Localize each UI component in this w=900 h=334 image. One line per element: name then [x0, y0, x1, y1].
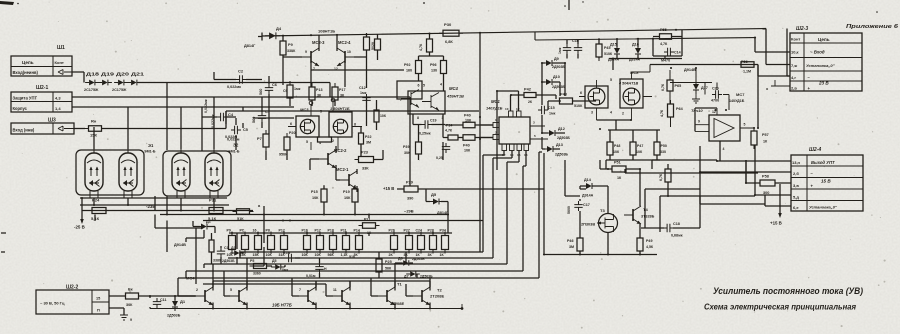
svg-text:5: 5	[423, 84, 425, 88]
svg-text:Т1: Т1	[397, 282, 402, 287]
op-amp МС7 outline	[709, 115, 740, 141]
svg-text:5: 5	[744, 123, 746, 127]
svg-text:9: 9	[305, 50, 307, 54]
svg-text:С11: С11	[160, 298, 166, 302]
wire collector/emitter at x=239	[246, 281, 248, 309]
svg-text:6: 6	[580, 91, 582, 95]
svg-text:10К: 10К	[266, 253, 273, 257]
ground symbol Ш2-3	[766, 80, 790, 91]
svg-text:11: 11	[333, 288, 337, 292]
svg-text:Д17: Д17	[701, 86, 708, 90]
svg-text:4,3: 4,3	[55, 95, 61, 100]
svg-text:2,в: 2,в	[791, 86, 797, 91]
svg-text:1,1К: 1,1К	[341, 253, 349, 257]
svg-text:330К: 330К	[287, 49, 296, 53]
svg-text:Р40: Р40	[464, 114, 471, 118]
svg-text:0,022мк: 0,022мк	[227, 85, 241, 89]
svg-text:459НТ1В: 459НТ1В	[446, 94, 464, 99]
svg-text:Н: Н	[324, 267, 327, 271]
resistor Р32 51К	[233, 209, 254, 221]
resistor С24 1К (row)	[416, 229, 425, 258]
resistor Р58 300	[756, 175, 779, 196]
svg-text:Д1: Д1	[180, 299, 186, 304]
svg-text:Р25: Р25	[385, 260, 392, 264]
terminal dot bottom right	[461, 304, 464, 310]
svg-text:Р55: Р55	[660, 28, 667, 32]
svg-text:Д814Г: Д814Г	[244, 44, 256, 48]
resistor Р49 4,5К	[637, 234, 654, 255]
svg-text:Р16: Р16	[302, 229, 308, 233]
svg-text:Р20: Р20	[289, 131, 295, 135]
svg-text:7,ж: 7,ж	[791, 63, 797, 68]
svg-text:1мк: 1мк	[294, 87, 301, 91]
capacitor С22 0,25мк	[436, 143, 450, 160]
svg-text:Р39: Р39	[403, 145, 409, 149]
wire С4 leads	[202, 116, 236, 118]
svg-text:Д5: Д5	[431, 192, 437, 197]
resistor Р9 10К (row)	[227, 229, 236, 258]
svg-text:Т4: Т4	[643, 207, 648, 212]
wire bundle vertical x=523	[523, 151, 526, 272]
svg-text:108НТ1Б: 108НТ1Б	[318, 29, 335, 34]
resistor Р33 4,7К	[427, 35, 433, 56]
svg-text:0,25: 0,25	[436, 156, 443, 160]
transistor МС8.1	[588, 88, 605, 105]
svg-text:РС: РС	[240, 229, 245, 233]
op-amp МС7 pins	[695, 108, 754, 161]
tube Э1a	[85, 149, 103, 198]
resistor Р47 10К	[630, 138, 643, 159]
svg-text:6,8К: 6,8К	[445, 40, 453, 44]
svg-text:2Д503Б: 2Д503Б	[412, 257, 425, 261]
svg-text:Р17: Р17	[339, 88, 345, 92]
wire tube interbox links	[80, 97, 229, 215]
svg-text:Р50: Р50	[661, 144, 667, 148]
wire bus y=220.5	[203, 220, 483, 222]
resistor Р30 6,8К	[439, 22, 463, 44]
svg-text:Ш2-3: Ш2-3	[796, 26, 808, 32]
capacitor С2 0,022мк	[227, 75, 246, 89]
svg-text:Защита УПТ: Защита УПТ	[13, 95, 38, 100]
svg-text:Установка„0”: Установка„0”	[809, 205, 837, 210]
svg-text:5: 5	[610, 78, 612, 82]
svg-text:МС2-4: МС2-4	[338, 40, 351, 45]
resistor Р8 10К (row)	[266, 229, 275, 258]
wire Д15/Д16 block nets	[567, 30, 682, 70]
svg-text:10: 10	[505, 107, 509, 111]
svg-text:-23В: -23В	[146, 204, 156, 209]
ground under Д17	[692, 91, 700, 103]
svg-text:23 В: 23 В	[818, 81, 829, 86]
svg-text:3380: 3380	[213, 259, 221, 263]
tube Э1b	[119, 149, 137, 198]
svg-text:С6: С6	[272, 83, 277, 87]
svg-text:0,68мк: 0,68мк	[671, 234, 683, 238]
wire inverting input net	[74, 128, 85, 130]
svg-text:5600: 5600	[567, 206, 571, 214]
wire rail2 to Ш2-3 row2	[766, 29, 790, 77]
svg-text:3М: 3М	[366, 141, 371, 145]
resistor Р40 10К	[459, 114, 479, 128]
svg-text:10К: 10К	[380, 114, 387, 118]
svg-text:0мк: 0мк	[282, 268, 288, 272]
svg-text:С14: С14	[674, 51, 681, 55]
svg-text:Р7: Р7	[257, 137, 262, 141]
svg-text:10К: 10К	[344, 196, 351, 200]
wire tube bias rail	[82, 210, 253, 212]
svg-text:560: 560	[259, 89, 263, 95]
svg-text:8: 8	[417, 116, 419, 120]
resistor Р55 4,7К	[656, 28, 676, 46]
wire emitter rail bottom	[150, 308, 462, 310]
resistor Р17 10К (row)	[315, 229, 324, 258]
svg-text:0,022мк: 0,022мк	[204, 99, 208, 113]
capacitor С6 560	[265, 84, 273, 94]
svg-text:С20: С20	[712, 87, 719, 91]
svg-text:4700: 4700	[711, 99, 719, 103]
ic МС1 140УД1Б outline	[486, 99, 530, 144]
svg-text:2: 2	[196, 288, 198, 292]
resistor 16 15К (row)	[253, 229, 262, 258]
svg-text:Р23: Р23	[361, 151, 368, 155]
resistor Р42	[520, 88, 540, 105]
wire МС2-2 stage	[310, 146, 383, 180]
svg-text:Р96: Р96	[430, 63, 436, 67]
wire bottom row cross bus y=281	[213, 280, 430, 282]
wire Р8 Р10 tops	[367, 34, 378, 88]
capacitor С12 1мк	[359, 86, 371, 104]
capacitor С15 1мк	[538, 106, 556, 116]
svg-text:Р57: Р57	[762, 133, 769, 137]
power arrow -25 В	[74, 198, 85, 230]
wire top edge mark	[568, 0, 570, 10]
svg-text:510К: 510К	[574, 104, 583, 108]
resistor Р17 3К	[332, 83, 345, 104]
svg-text:Д4: Д4	[276, 26, 282, 31]
wire cap column links	[226, 76, 287, 160]
svg-text:Р18: Р18	[328, 229, 334, 233]
wire diode string to node	[138, 83, 330, 151]
svg-text:Д5: Д5	[272, 259, 277, 263]
svg-text:8: 8	[354, 123, 356, 127]
stray mark top left	[0, 1, 19, 5]
wire below tubes links	[95, 215, 203, 285]
svg-text:Р92: Р92	[404, 63, 410, 67]
diode Д21	[127, 80, 141, 86]
resistor Р22 3М	[359, 129, 372, 148]
resistor Р65 value 6,7К	[661, 83, 665, 91]
svg-text:15К: 15К	[240, 253, 247, 257]
diode Д4	[265, 26, 282, 39]
svg-text:4,7К: 4,7К	[419, 43, 423, 51]
svg-text:9: 9	[130, 318, 132, 322]
capacitor С14 М470	[661, 48, 681, 63]
svg-text:Р14: Р14	[354, 229, 360, 233]
svg-text:С2: С2	[238, 69, 244, 74]
transistor bottom row at x=239	[230, 287, 247, 305]
svg-text:6,7К: 6,7К	[659, 173, 663, 181]
svg-text:С1: С1	[224, 246, 229, 250]
svg-text:МС2-1: МС2-1	[336, 167, 349, 172]
capacitor С7 value 560	[252, 117, 256, 123]
svg-text:МС1: МС1	[491, 99, 501, 104]
resistor Р18 56К (row)	[328, 229, 337, 258]
resistor Р28 3К (row)	[428, 229, 437, 258]
svg-text:+15 В: +15 В	[383, 186, 394, 191]
svg-text:С5: С5	[243, 128, 249, 132]
svg-text:30К: 30К	[126, 303, 133, 307]
resistor Р34 1К (row)	[440, 229, 449, 258]
diode Д10 2Д503Б	[542, 75, 565, 89]
wire Р9 to rail	[282, 36, 284, 85]
wire lower mid links	[212, 215, 418, 279]
connector table Ш3	[11, 123, 74, 134]
svg-text:МС7: МС7	[736, 92, 745, 97]
wire grid bus y=118	[253, 117, 294, 119]
stray mark left edge	[1, 233, 6, 252]
svg-text:56К: 56К	[385, 267, 392, 271]
svg-text:Д18 Д19 Д20 Д21: Д18 Д19 Д20 Д21	[86, 72, 145, 77]
svg-text:4,7К: 4,7К	[660, 42, 668, 46]
svg-text:Р31: Р31	[209, 198, 217, 203]
wire top rail left terminal	[258, 33, 262, 41]
svg-text:Ш1: Ш1	[57, 45, 65, 51]
svg-text:3360: 3360	[253, 272, 261, 276]
capacitor С21 1мк	[563, 44, 571, 54]
wire bundle vertical x=483	[483, 151, 504, 253]
resistor Р1 30К	[122, 288, 143, 308]
resistor Р7 680К	[257, 130, 269, 151]
resistor Р23 33К	[355, 151, 378, 171]
wire collector/emitter at x=387	[394, 281, 396, 309]
capacitor С21 value 1мк	[558, 47, 562, 54]
transistor МС2-3	[302, 48, 319, 71]
tube group box Э1	[76, 150, 144, 195]
svg-text:Установка„0”: Установка„0”	[806, 63, 836, 68]
transistor МС2-2	[319, 150, 336, 168]
svg-text:15К: 15К	[253, 253, 260, 257]
svg-text:5,д: 5,д	[793, 195, 799, 200]
stray specks top edge	[423, 1, 878, 102]
svg-text:10К: 10К	[636, 150, 643, 154]
wire Р36 link	[376, 100, 378, 130]
svg-text:5: 5	[230, 288, 232, 292]
svg-text:Р9: Р9	[227, 229, 231, 233]
wire node a vertical	[263, 206, 265, 243]
svg-text:16: 16	[253, 229, 257, 233]
capacitor С7 560	[258, 110, 270, 122]
svg-text:6: 6	[290, 122, 292, 126]
resistor Р64 4,7К	[668, 100, 684, 121]
svg-text:Р29: Р29	[406, 181, 413, 185]
svg-text:-25 В: -25 В	[74, 225, 85, 230]
transistor bottom row at x=422	[413, 287, 430, 305]
svg-text:С19: С19	[430, 119, 437, 123]
wire base feeds bottom row	[178, 258, 430, 296]
svg-text:4 504НТ1В: 4 504НТ1В	[618, 82, 638, 86]
paper grain filter	[0, 0, 1, 1]
svg-text:С15: С15	[548, 106, 555, 110]
wire collector/emitter at x=342	[349, 281, 351, 309]
svg-text:Р27: Р27	[404, 229, 410, 233]
resistor Р9 330К	[280, 37, 296, 59]
svg-text:2Д503Б: 2Д503Б	[420, 275, 433, 279]
svg-text:10К: 10К	[227, 253, 234, 257]
svg-text:Вход (инв): Вход (инв)	[13, 127, 35, 132]
resistor Р64 value 4,7К	[660, 109, 664, 117]
wire bundle vertical x=507	[507, 151, 519, 265]
wire diode column nets	[542, 63, 596, 149]
wire collector/emitter at x=205	[212, 281, 214, 309]
resistor Р15 10К	[311, 185, 327, 206]
svg-text:4: 4	[440, 83, 442, 87]
capacitor С18 0,68мк	[664, 222, 683, 238]
ic МС8 504НТ1В outline	[585, 70, 643, 108]
svg-text:Р48: Р48	[614, 144, 620, 148]
svg-text:10К: 10К	[465, 119, 472, 123]
svg-text:Р21: Р21	[364, 218, 370, 222]
svg-text:Р8: Р8	[266, 229, 270, 233]
svg-text:0,25мк: 0,25мк	[419, 132, 431, 136]
wire bundle horizontal y=252	[240, 251, 483, 253]
svg-text:1мк: 1мк	[360, 91, 367, 95]
diode Д19	[98, 80, 112, 86]
svg-text:Р46: Р46	[567, 239, 573, 243]
svg-text:2: 2	[332, 139, 334, 143]
capacitor С1 3380	[213, 246, 229, 263]
svg-text:Р34: Р34	[440, 229, 446, 233]
svg-text:Д914В: Д914В	[174, 243, 186, 247]
svg-text:Вход(неинв): Вход(неинв)	[13, 70, 39, 75]
diode Д5b 0мк	[271, 259, 288, 272]
svg-text:Р43: Р43	[560, 93, 567, 97]
transistor Т4 3Т328Б	[624, 206, 655, 224]
svg-text:10,к: 10,к	[791, 50, 799, 55]
svg-text:13,н: 13,н	[792, 160, 801, 165]
svg-text:~ 30 В, 50 Гц: ~ 30 В, 50 Гц	[40, 301, 65, 306]
capacitor С8 0,1м	[283, 251, 295, 262]
diode Д9 2Д503Б	[542, 57, 565, 69]
svg-text:Р26: Р26	[389, 229, 395, 233]
svg-text:6,е: 6,е	[793, 205, 799, 210]
diode Д20	[114, 80, 128, 86]
svg-text:560: 560	[252, 117, 256, 123]
resistor Р36 10К	[374, 106, 387, 126]
svg-text:2Д503Б: 2Д503Б	[222, 259, 235, 263]
transistor МС2-4	[334, 48, 354, 71]
diode Д14 Д914А	[582, 178, 596, 198]
svg-text:Р13: Р13	[316, 88, 322, 92]
diode Д12 2Д503Б	[545, 127, 570, 140]
diode Д7 2Д503Б	[404, 271, 433, 278]
resistor Р92 160	[404, 57, 422, 78]
connector table Ш2-1	[11, 92, 72, 112]
svg-text:5: 5	[320, 110, 322, 114]
wire rail to Ш2-3 row1	[755, 38, 790, 52]
diode Д16 Д814А	[629, 43, 641, 62]
svg-text:10К: 10К	[312, 196, 319, 200]
resistor Р12 31К (row)	[279, 229, 288, 258]
svg-text:МС4: МС4	[449, 86, 459, 91]
svg-text:Схема электрическая принципи: Схема электрическая принципиальная	[704, 302, 856, 312]
diode Д1 2Д503Б	[167, 297, 186, 318]
svg-text:1мк: 1мк	[558, 47, 562, 54]
wire to Ш2-3 row 4г	[758, 65, 790, 77]
capacitor С17 value 5600	[567, 206, 571, 214]
svg-text:+15 В: +15 В	[770, 221, 782, 226]
svg-text:10К: 10К	[302, 253, 309, 257]
capacitor С6 value 560	[259, 83, 277, 95]
resistor Р57 1К	[751, 127, 769, 149]
resistor Р26 2К (row)	[389, 229, 398, 258]
svg-text:Р49: Р49	[646, 239, 652, 243]
resistor Р24 5,1К	[88, 198, 110, 222]
svg-text:2Д503Б: 2Д503Б	[552, 85, 565, 89]
wire bundle left drops	[178, 252, 240, 296]
svg-text:0,1м: 0,1м	[283, 251, 291, 255]
svg-text:Д15: Д15	[610, 43, 617, 47]
svg-text:С18: С18	[673, 222, 680, 226]
resistor Р25 56К	[376, 255, 392, 276]
svg-text:Р22: Р22	[365, 135, 371, 139]
wire МС8 bottom bus	[597, 120, 661, 169]
svg-text:4: 4	[319, 141, 321, 145]
svg-text:Р17: Р17	[315, 229, 321, 233]
svg-text:4,7К: 4,7К	[660, 109, 664, 117]
svg-text:2,б: 2,б	[793, 171, 799, 176]
svg-text:Ш2-1: Ш2-1	[36, 85, 48, 91]
resistor Р43 510К	[556, 93, 584, 109]
transistor bottom row at x=342	[333, 287, 350, 305]
resistor Р21 1К	[359, 218, 380, 236]
svg-text:Р5: Р5	[250, 259, 254, 263]
svg-text:Цепь: Цепь	[818, 37, 830, 42]
svg-text:3Т328Б: 3Т328Б	[641, 215, 655, 219]
wire collector/emitter at x=308	[315, 281, 317, 309]
diode Д3 2Д503Б	[222, 246, 244, 263]
svg-text:2С175Ж: 2С175Ж	[84, 88, 99, 92]
diode Д13 2Д503Б	[543, 143, 568, 157]
ic МС4 459НТ1В outline	[397, 81, 464, 120]
svg-text:Р65: Р65	[675, 84, 682, 88]
wire С2 leads	[214, 72, 262, 80]
svg-text:1мк: 1мк	[549, 112, 556, 116]
svg-text:2Д503Б: 2Д503Б	[555, 153, 568, 157]
capacitor С17 5600	[574, 201, 590, 211]
svg-text:160: 160	[406, 69, 412, 73]
svg-text:3: 3	[591, 111, 593, 115]
wire Р29 Д5 net	[397, 189, 544, 233]
resistor Р44 6,7К	[665, 165, 671, 186]
ground symbol near Ш2-2	[120, 315, 132, 322]
svg-text:Д9: Д9	[554, 57, 559, 61]
svg-text:С17: С17	[583, 203, 590, 207]
wire Д2 leads	[186, 221, 215, 242]
svg-text:МС3: МС3	[300, 107, 309, 112]
svg-text:Р42: Р42	[524, 88, 531, 92]
transistor bottom row at x=205	[196, 287, 213, 305]
wire chassis net y=107	[72, 107, 294, 151]
svg-text:Т3: Т3	[600, 208, 605, 213]
ic МС3 pins	[288, 98, 362, 150]
svg-text:0,022мк: 0,022мк	[211, 114, 215, 128]
wire op-amp area to right nets	[625, 160, 765, 232]
svg-text:Д10: Д10	[553, 75, 560, 79]
resistor Р45 510К	[596, 40, 613, 61]
resistor Р19 10К	[343, 185, 358, 206]
svg-text:140УД1Б: 140УД1Б	[486, 107, 503, 111]
svg-text:Р28: Р28	[428, 229, 434, 233]
